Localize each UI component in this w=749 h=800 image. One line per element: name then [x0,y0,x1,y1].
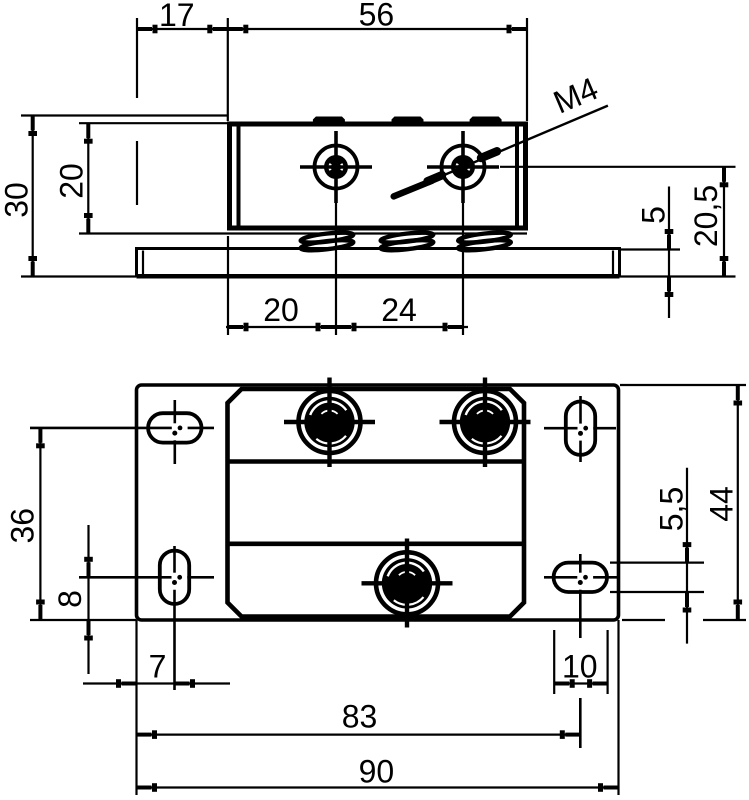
svg-text:56: 56 [359,0,395,33]
svg-text:20: 20 [54,163,90,199]
svg-text:7: 7 [149,648,167,684]
svg-text:24: 24 [381,292,417,328]
svg-text:20: 20 [263,292,299,328]
svg-text:90: 90 [359,754,395,790]
svg-text:30: 30 [0,182,35,218]
svg-text:20,5: 20,5 [688,185,724,247]
svg-text:5,5: 5,5 [654,487,690,531]
svg-text:10: 10 [562,648,598,684]
svg-text:83: 83 [342,699,378,735]
svg-text:36: 36 [4,508,40,544]
svg-text:17: 17 [159,0,195,33]
svg-text:5: 5 [636,206,672,224]
svg-text:44: 44 [704,486,740,522]
svg-text:8: 8 [52,590,88,608]
